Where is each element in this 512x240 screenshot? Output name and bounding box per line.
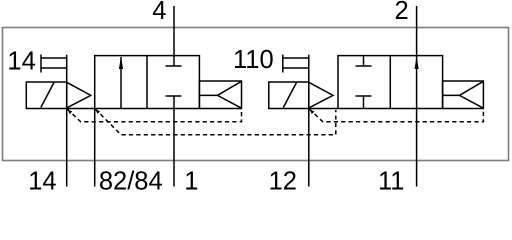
air return box V1 [199,81,241,109]
wire port 2 / port 11 [416,6,418,187]
svg-text:12: 12 [269,167,297,192]
pilot channel dashed 82/84 to V2 [95,109,336,135]
svg-text:4: 4 [152,0,166,25]
blocked port T top V2 [356,56,372,66]
valve body V2 [338,56,443,109]
air return pilot line V1 [199,94,217,96]
air return pilot line V2 [443,94,460,96]
solenoid coil V2 diagonal [283,83,296,108]
dashed arrowhead at node 14 [67,109,72,114]
dashed arrowhead at node 12 [309,109,314,114]
solenoid coil V2 [269,82,309,109]
svg-text:110: 110 [233,46,274,74]
flow arrowhead V1 [119,56,123,69]
svg-text:2: 2 [395,0,409,25]
pilot channel dashed V2 (12 to air return) [309,109,483,122]
dashed arrowhead at node 82/84 [95,109,100,114]
solenoid coil V1 diagonal [41,83,54,108]
svg-text:82/84: 82/84 [99,167,163,192]
pilot triangle V1 [67,82,91,108]
solenoid coil V1 [26,82,66,109]
air return triangle V2 [460,81,484,108]
wire pilot 14 vertical (rect edge / coil edge / triangle base / port 14 line) [66,55,68,187]
svg-text:14: 14 [7,48,35,76]
blocked port T bottom V1 [166,95,182,97]
blocked port T top V1 [166,65,182,67]
wire pilot 12 vertical [308,55,310,187]
wire port 82/84 [94,109,96,187]
pilot triangle V2 [309,82,333,108]
svg-text:14: 14 [28,167,56,192]
valve V1 pilot port symbol 14 [41,55,67,73]
valve V2 pilot port symbol 110 [283,55,309,73]
valve body V1 [95,56,200,109]
blocked port T bottom V2 [356,96,372,109]
pilot channel dashed V1 (14 to air return) [67,109,241,122]
flow arrowhead V2 [415,56,419,69]
svg-text:1: 1 [184,167,198,192]
wire bottom channel V1 [67,108,95,110]
wire port 1 [173,96,175,187]
flow arrow V1 (actuated position) [120,57,122,109]
air return box V2 [443,81,484,109]
valve body V1 mid line [146,56,148,109]
wire bottom channel V2 [309,108,338,110]
air return triangle V1 [218,81,242,108]
svg-text:11: 11 [378,167,404,192]
wire port 4 [173,6,175,66]
valve body V2 mid line [389,56,391,109]
